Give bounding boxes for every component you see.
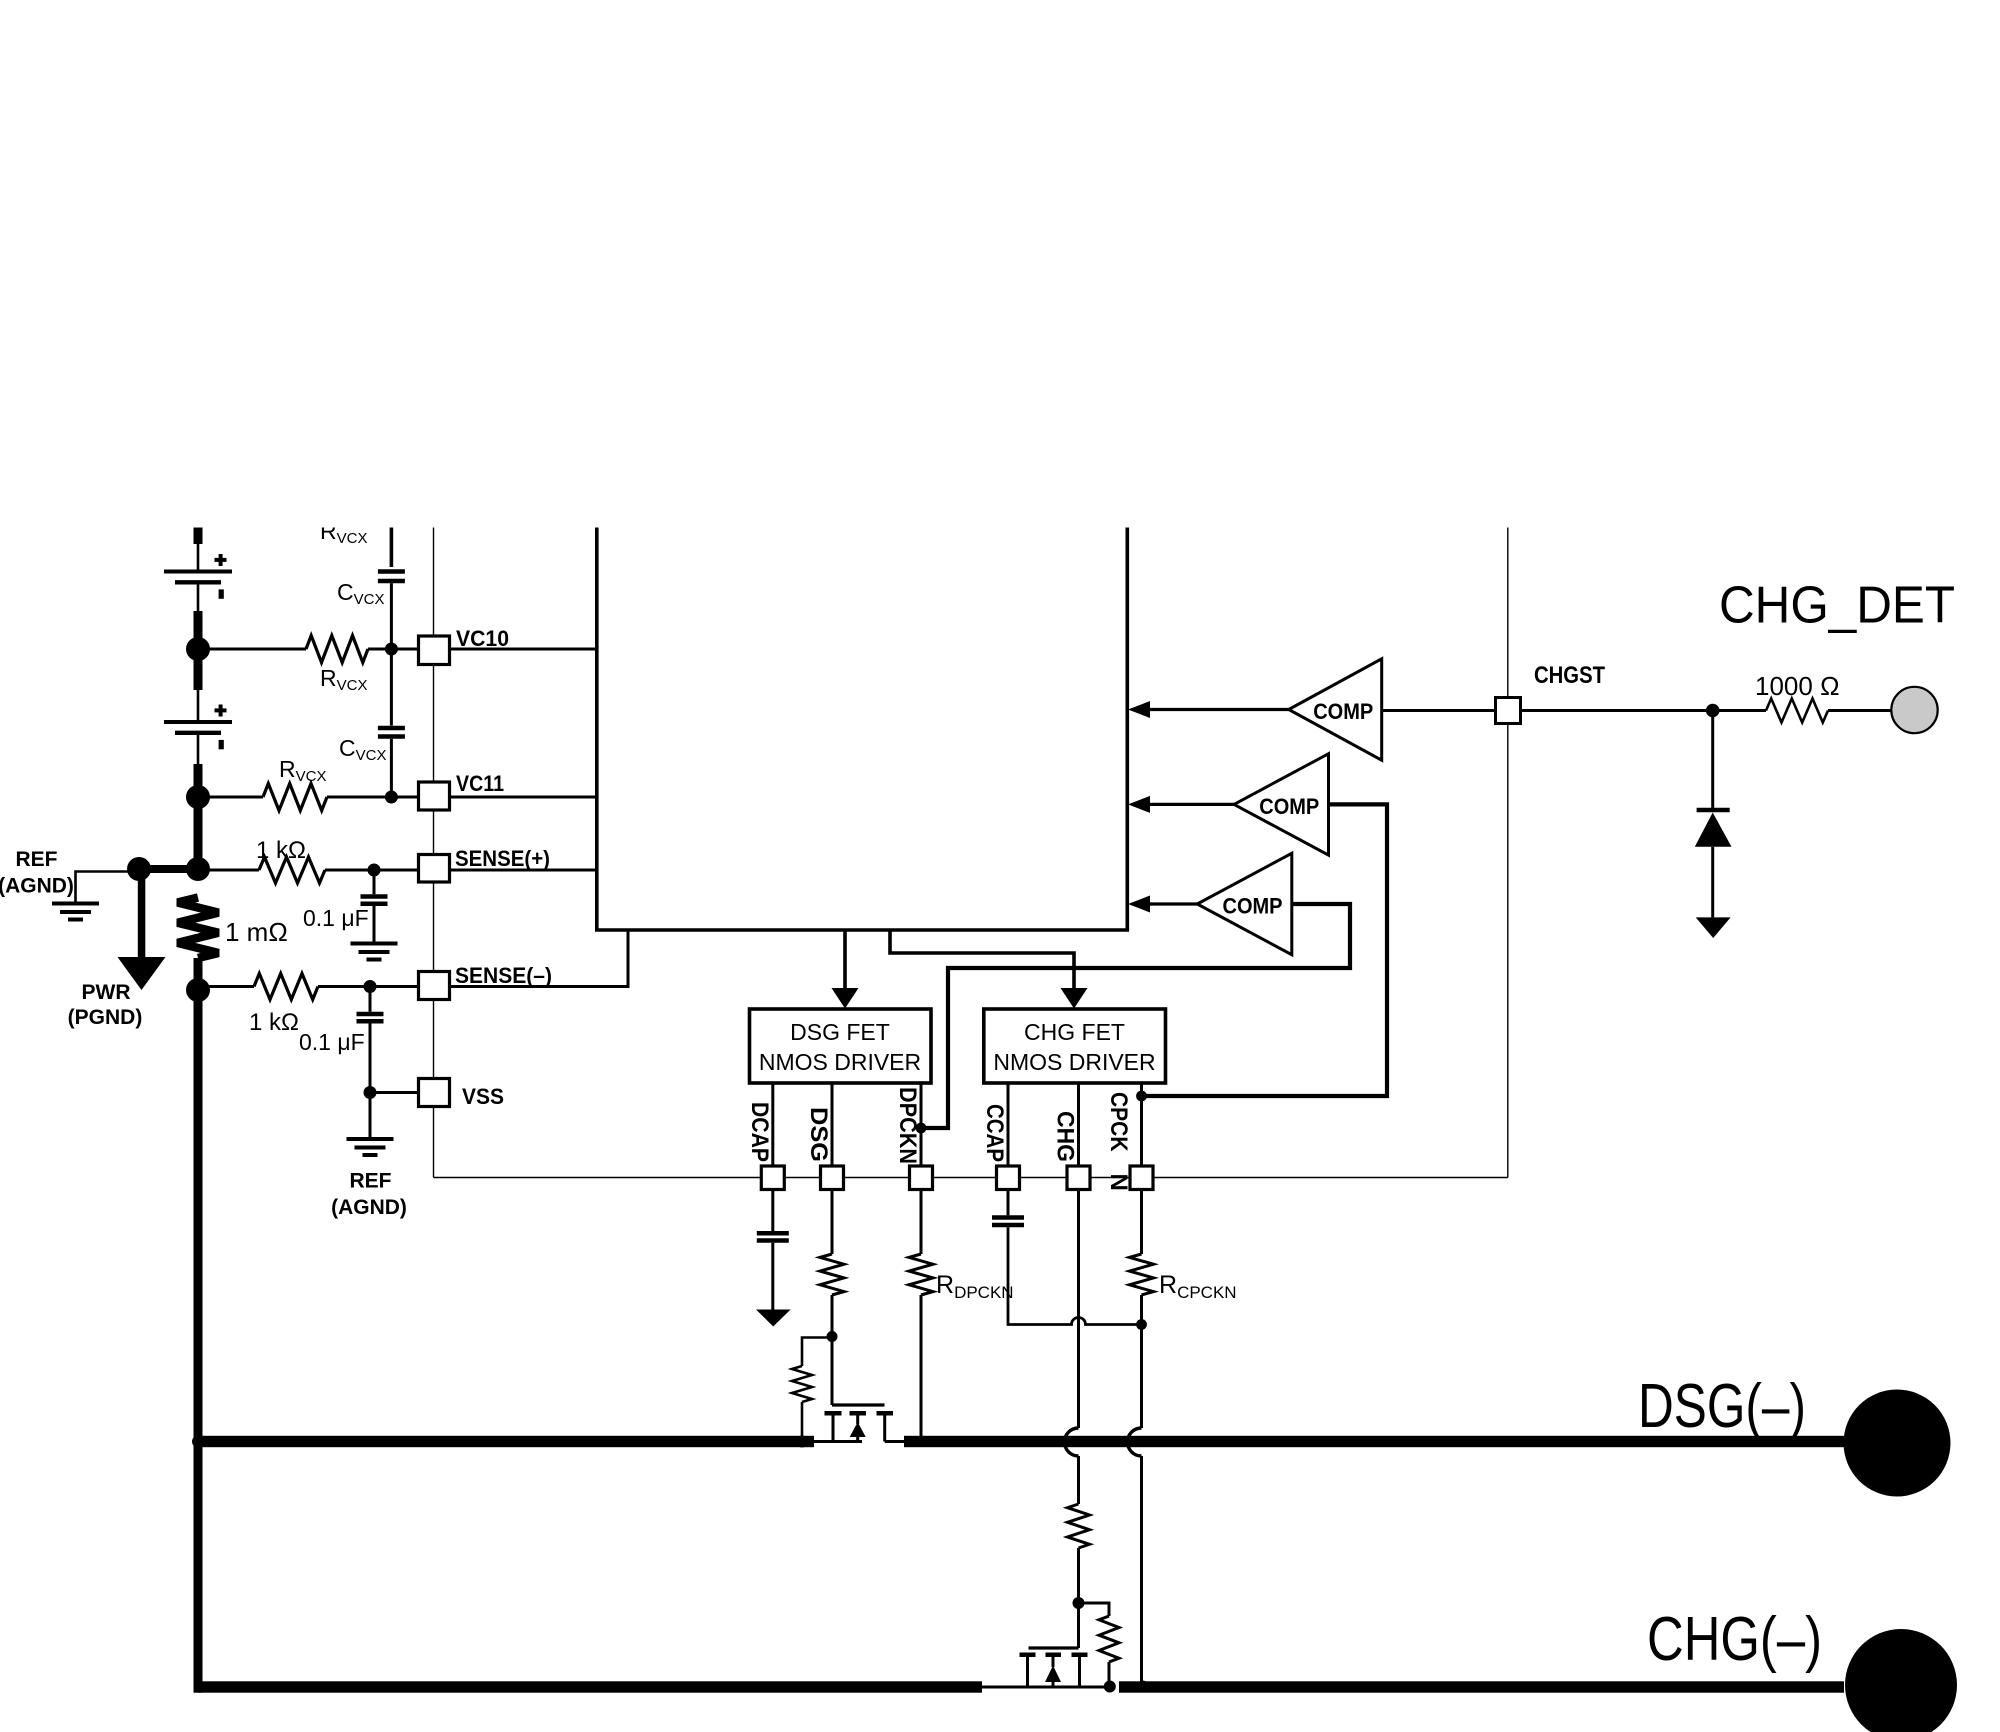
comparator COMP1 bbox=[1289, 659, 1382, 760]
node VC10 filter bbox=[385, 643, 398, 656]
resistor 1000 Ohm bbox=[1766, 699, 1828, 723]
svg-text:0.1 μF: 0.1 μF bbox=[299, 1029, 365, 1055]
comparator COMP3 bbox=[1197, 853, 1292, 954]
wire CPCK pin stub bbox=[1140, 1083, 1143, 1166]
node SENSE(-) filter bbox=[364, 980, 377, 993]
wire CHG pin stub bbox=[1077, 1083, 1080, 1166]
node DSG bus at battery rail bbox=[192, 1436, 204, 1448]
wire DPCKN branch bbox=[920, 1190, 923, 1255]
svg-text:CHG(–): CHG(–) bbox=[1647, 1605, 1822, 1674]
node CHG pulldown at source bbox=[1104, 1681, 1116, 1693]
svg-text:N: N bbox=[1105, 1174, 1132, 1191]
wire bbox=[369, 1024, 372, 1093]
pin CHG bbox=[1067, 1166, 1090, 1190]
wire bbox=[325, 869, 419, 872]
wire SENSE(-) row bbox=[198, 985, 254, 988]
wire bbox=[1108, 1662, 1111, 1687]
pin CHGST bbox=[1496, 698, 1521, 724]
resistor 1 kOhm SENSE(+) bbox=[259, 857, 325, 883]
svg-text:CCAP: CCAP bbox=[981, 1104, 1008, 1162]
node DPCKN-COMP3 junction bbox=[916, 1123, 927, 1134]
wire bbox=[390, 649, 393, 726]
svg-text:REF: REF bbox=[16, 848, 58, 871]
node SENSE(-) tap bbox=[186, 978, 210, 1002]
wire DCAP branch bbox=[771, 1190, 774, 1232]
svg-text:DSG(–): DSG(–) bbox=[1638, 1372, 1806, 1441]
wire COMP3 feedback to DPCKN bbox=[921, 904, 1350, 1128]
node REF AGND tap bbox=[127, 857, 151, 881]
transistor Q2 CHG NMOS FET bbox=[982, 1648, 1110, 1687]
terminal DSG(-) bbox=[1844, 1390, 1951, 1497]
wire bbox=[368, 648, 419, 651]
block CHG FET NMOS DRIVER bbox=[984, 1009, 1166, 1083]
node SENSE(+) filter bbox=[368, 864, 381, 877]
wire VC11 row bbox=[198, 796, 263, 799]
power PWR (PGND) arrow bbox=[118, 873, 166, 990]
wire bbox=[771, 1243, 774, 1310]
wire bbox=[373, 870, 376, 894]
wire bbox=[1711, 847, 1714, 918]
wire bbox=[197, 733, 200, 764]
svg-text:VC11: VC11 bbox=[456, 771, 504, 796]
resistor DSG gate series bbox=[820, 1254, 844, 1295]
svg-text:REF: REF bbox=[350, 1170, 392, 1193]
svg-text:1 kΩ: 1 kΩ bbox=[256, 837, 306, 864]
wire RVCX top line (cropped) bbox=[390, 528, 394, 568]
wire bbox=[197, 690, 200, 721]
ground SENSE(+) filter bbox=[351, 942, 398, 946]
wire VSS bbox=[370, 1091, 419, 1094]
wire bbox=[390, 739, 393, 797]
wire bbox=[327, 796, 419, 799]
pin CCAP bbox=[997, 1166, 1020, 1190]
svg-text:(AGND): (AGND) bbox=[0, 875, 74, 898]
wire DSG pin stub bbox=[831, 1083, 834, 1166]
wire DSG(-) bus bbox=[196, 1436, 1844, 1447]
node DSG gate bbox=[827, 1331, 838, 1342]
resistor RCPCKN bbox=[1130, 1254, 1154, 1295]
wire battery negative rail down bbox=[194, 990, 203, 1690]
resistor RVCX (VC11) bbox=[263, 784, 327, 811]
wire bbox=[801, 1402, 804, 1442]
svg-text:COMP: COMP bbox=[1223, 894, 1283, 919]
node cell tap VC11 bbox=[186, 785, 210, 809]
power arrow terminator DCAP bbox=[756, 1310, 791, 1327]
svg-text:CHG_DET: CHG_DET bbox=[1719, 577, 1955, 635]
svg-text:0.1 μF: 0.1 μF bbox=[303, 905, 369, 931]
svg-text:NMOS DRIVER: NMOS DRIVER bbox=[759, 1049, 921, 1075]
wire SENSE(+) to IC bbox=[450, 869, 597, 872]
wire CHGST to CHG_DET node bbox=[1521, 709, 1767, 712]
wire SENSE(-) to IC bottom bbox=[450, 930, 629, 987]
IC main block outline bbox=[595, 528, 1129, 931]
resistor RVCX (VC10) bbox=[306, 636, 368, 663]
wire bbox=[373, 906, 376, 942]
wire bbox=[920, 1295, 923, 1442]
wire thick bus segment bbox=[194, 797, 203, 869]
node cell tap VC10 bbox=[186, 637, 210, 661]
wire DPCKN pin stub bbox=[920, 1083, 923, 1166]
wire bbox=[390, 583, 393, 649]
IC pin boundary thin line bottom bbox=[434, 1177, 1508, 1179]
resistor 1 mOhm shunt bbox=[178, 898, 219, 959]
wire REF AGND bbox=[76, 872, 140, 903]
svg-text:VC10: VC10 bbox=[456, 626, 509, 651]
resistor 1 kOhm SENSE(-) bbox=[254, 974, 318, 1000]
wire COMP1 input from CHGST bbox=[1382, 709, 1496, 712]
pin SENSE(+) bbox=[419, 855, 450, 883]
wire bbox=[318, 985, 419, 988]
wire DSG driver feed arrow bbox=[832, 930, 859, 1009]
svg-text:COMP: COMP bbox=[1313, 699, 1373, 724]
wire CCAP pin stub bbox=[1007, 1083, 1010, 1166]
resistor CHG gate series bbox=[1068, 1504, 1090, 1548]
wire CHG(-) bus bbox=[198, 1681, 1844, 1692]
wire bbox=[1828, 709, 1892, 712]
wire COMP2 feedback to CPCKN bbox=[1142, 804, 1388, 1096]
wire COMP3 output arrow into IC bbox=[1128, 896, 1197, 913]
node SENSE(+) tap bbox=[186, 857, 210, 881]
svg-text:(PGND): (PGND) bbox=[68, 1006, 143, 1029]
wire thick link bbox=[139, 865, 198, 873]
svg-text:PWR: PWR bbox=[82, 981, 131, 1004]
power arrow terminator below diode bbox=[1696, 917, 1731, 938]
svg-text:CHG: CHG bbox=[1052, 1111, 1079, 1162]
pin CPCKN bbox=[1130, 1166, 1153, 1190]
wire CHG(-) rail corner bbox=[194, 1681, 203, 1692]
wire thick bus segment bbox=[194, 958, 203, 990]
wire thick bus segment bbox=[194, 764, 203, 797]
transistor Q1 DSG NMOS FET bbox=[812, 1405, 906, 1442]
svg-text:VSS: VSS bbox=[462, 1084, 504, 1109]
wire CCAP branch bbox=[1007, 1190, 1010, 1216]
terminal CHG(-) bbox=[1845, 1629, 1957, 1732]
svg-text:DCAP: DCAP bbox=[746, 1102, 773, 1162]
svg-text:NMOS DRIVER: NMOS DRIVER bbox=[993, 1049, 1155, 1075]
svg-text:DSG FET: DSG FET bbox=[790, 1019, 890, 1045]
node CHG gate bbox=[1073, 1597, 1085, 1609]
pin DPCKN bbox=[910, 1166, 933, 1190]
wire battery stack top stub bbox=[194, 528, 203, 545]
resistor DSG gate pulldown bbox=[792, 1366, 812, 1402]
svg-text:1 kΩ: 1 kΩ bbox=[249, 1009, 299, 1036]
pin VSS bbox=[419, 1079, 450, 1107]
battery cell B1 bbox=[164, 554, 232, 599]
wire with hop over DSG bus bbox=[1140, 1295, 1143, 1428]
node CPCKN-COMP2 junction bbox=[1136, 1091, 1147, 1102]
ground REF (AGND) left bbox=[52, 902, 99, 906]
wire CPCKN branch bbox=[1140, 1190, 1143, 1255]
wire thick bus segment bbox=[194, 611, 203, 639]
battery cell B2 bbox=[164, 705, 232, 750]
wire SENSE(+) row bbox=[198, 869, 259, 872]
IC pin boundary thin line right bbox=[1507, 528, 1509, 1178]
terminal CHG_DET (gray circle) bbox=[1891, 687, 1937, 733]
capacitor 0.1 uF SENSE(+) bbox=[361, 894, 388, 899]
svg-text:(AGND): (AGND) bbox=[331, 1196, 407, 1219]
block DSG FET NMOS DRIVER bbox=[750, 1009, 932, 1083]
wire bbox=[831, 1295, 834, 1405]
node CHG_DET junction bbox=[1706, 704, 1720, 718]
node DSG pulldown at bus bbox=[796, 1436, 808, 1448]
ground REF (AGND) below VSS bbox=[347, 1137, 394, 1141]
pin SENSE(-) bbox=[419, 972, 450, 1000]
pin DSG bbox=[821, 1166, 844, 1190]
wire VC11 to IC bbox=[450, 796, 597, 799]
wire CHG driver feed arrow bbox=[890, 930, 1088, 1009]
pin VC10 bbox=[419, 636, 450, 665]
wire thick bus segment bbox=[194, 659, 203, 690]
comparator COMP2 bbox=[1234, 754, 1329, 855]
wire bbox=[197, 582, 200, 611]
wire DCAP pin stub bbox=[771, 1083, 774, 1166]
resistor RDPCKN bbox=[909, 1254, 933, 1295]
resistor CHG gate pulldown bbox=[1099, 1616, 1119, 1662]
svg-text:CHGST: CHGST bbox=[1534, 662, 1605, 689]
wire bbox=[369, 1093, 372, 1138]
diode D1 bbox=[1695, 810, 1732, 847]
svg-text:SENSE(+): SENSE(+) bbox=[455, 846, 550, 871]
wire VC10 to IC bbox=[450, 648, 597, 651]
wire DSG branch bbox=[831, 1190, 834, 1255]
wire DSG gate pulldown link bbox=[802, 1338, 832, 1367]
node VSS filter bbox=[364, 1086, 377, 1099]
wire diode branch bbox=[1711, 711, 1714, 811]
node CCAP-CPCKN junction bbox=[1136, 1319, 1147, 1330]
pin VC11 bbox=[419, 782, 450, 810]
node RDPCKN at DSG bus bbox=[916, 1436, 927, 1447]
svg-text:CPCK: CPCK bbox=[1105, 1092, 1132, 1152]
wire bbox=[197, 543, 200, 571]
capacitor CVCX (second) bbox=[378, 726, 405, 731]
wire CHG gate pulldown link bbox=[1079, 1603, 1110, 1616]
capacitor 0.1 uF SENSE(-) bbox=[357, 1012, 384, 1017]
wire COMP1 output arrow into IC bbox=[1128, 701, 1289, 718]
svg-text:1000 Ω: 1000 Ω bbox=[1755, 671, 1840, 701]
wire CCAP to CPCKN with hop over CHG line bbox=[1008, 1227, 1142, 1324]
svg-text:SENSE(–): SENSE(–) bbox=[455, 963, 552, 988]
node VC11 filter bbox=[385, 791, 398, 804]
wire CHG branch with hop over DSG bus bbox=[1077, 1190, 1080, 1429]
wire bbox=[369, 987, 372, 1012]
IC pin boundary thin line left bbox=[433, 528, 435, 1178]
node CPCKN at CHG bus bbox=[1137, 1681, 1149, 1693]
capacitor CVCX (top) bbox=[378, 569, 405, 574]
svg-text:DSG: DSG bbox=[805, 1107, 832, 1162]
wire VC10 row bbox=[198, 648, 306, 651]
capacitor CCAP bbox=[992, 1215, 1024, 1220]
svg-text:1 mΩ: 1 mΩ bbox=[225, 917, 288, 947]
wire COMP2 output arrow into IC bbox=[1128, 796, 1234, 813]
svg-text:CHG FET: CHG FET bbox=[1024, 1019, 1125, 1045]
wire bbox=[1077, 1548, 1080, 1648]
pin DCAP bbox=[761, 1166, 784, 1190]
svg-text:COMP: COMP bbox=[1259, 794, 1319, 819]
capacitor DCAP bbox=[757, 1231, 789, 1236]
